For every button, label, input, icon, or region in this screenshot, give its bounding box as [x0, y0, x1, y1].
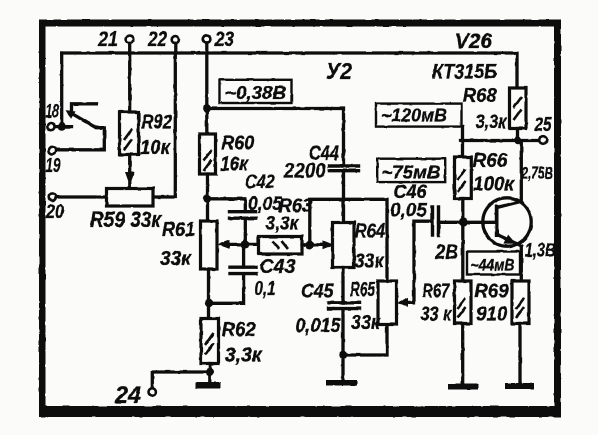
svg-text:V26: V26 [455, 30, 492, 53]
svg-text:33 к: 33 к [420, 304, 452, 326]
svg-text:18: 18 [46, 102, 60, 123]
svg-text:100к: 100к [473, 174, 515, 196]
svg-text:~75мВ: ~75мВ [382, 163, 441, 183]
svg-text:R69: R69 [474, 281, 509, 303]
svg-text:У2: У2 [326, 58, 352, 84]
svg-text:0,1: 0,1 [255, 278, 276, 300]
svg-text:R65: R65 [350, 279, 376, 301]
svg-text:R68: R68 [463, 85, 498, 107]
svg-text:R62: R62 [222, 319, 256, 341]
svg-text:22: 22 [147, 28, 167, 51]
svg-text:25: 25 [534, 114, 552, 136]
svg-text:R92: R92 [142, 112, 173, 134]
svg-text:24: 24 [114, 382, 141, 409]
svg-text:3,3к: 3,3к [225, 345, 263, 367]
svg-text:910: 910 [476, 304, 507, 326]
svg-text:R61: R61 [162, 219, 195, 241]
svg-text:20: 20 [45, 201, 64, 223]
svg-text:R59 33к: R59 33к [90, 207, 163, 232]
svg-text:~120мВ: ~120мВ [381, 106, 447, 126]
svg-text:КТ315Б: КТ315Б [432, 61, 497, 84]
svg-text:2200: 2200 [283, 160, 326, 183]
svg-text:R64: R64 [355, 221, 386, 243]
svg-text:С45: С45 [301, 281, 334, 303]
svg-text:С43: С43 [260, 256, 296, 278]
svg-text:2,75В: 2,75В [521, 164, 553, 183]
svg-text:0,015: 0,015 [296, 315, 342, 337]
svg-text:33к: 33к [351, 312, 381, 334]
svg-text:R67: R67 [422, 281, 450, 303]
svg-text:0,05: 0,05 [390, 201, 427, 222]
svg-text:R60: R60 [221, 133, 254, 155]
svg-text:33к: 33к [160, 248, 192, 270]
svg-text:R66: R66 [473, 150, 509, 172]
svg-text:23: 23 [214, 28, 234, 51]
svg-text:19: 19 [46, 155, 62, 177]
svg-text:0,05: 0,05 [248, 194, 282, 215]
svg-text:3,3к: 3,3к [476, 112, 508, 133]
svg-text:3,3к: 3,3к [266, 214, 300, 235]
svg-text:~44мВ: ~44мВ [471, 256, 515, 275]
svg-text:~0,38В: ~0,38В [225, 83, 286, 103]
svg-text:10к: 10к [140, 137, 171, 159]
svg-text:21: 21 [97, 28, 118, 51]
svg-text:2В: 2В [434, 241, 458, 264]
svg-text:33к: 33к [355, 251, 385, 273]
svg-text:1,3В: 1,3В [525, 241, 556, 262]
svg-text:С42: С42 [245, 172, 275, 193]
